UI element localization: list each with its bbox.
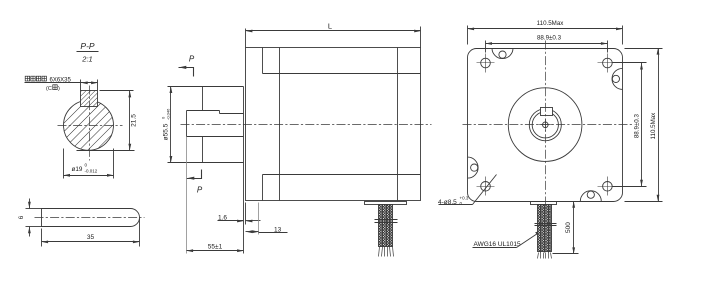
section title underline bbox=[77, 51, 99, 53]
dim 6 extension bottom bbox=[26, 226, 42, 228]
horizontal centerline bbox=[463, 124, 633, 126]
shaft section circle hatched bbox=[64, 100, 114, 150]
dim L extension left bbox=[245, 29, 247, 48]
dim 88.9 top extensions bbox=[485, 41, 487, 53]
dim 35 extension right bbox=[139, 219, 141, 247]
dim 6 extension top bbox=[26, 208, 42, 210]
shaft inner circle bbox=[532, 112, 558, 138]
svg-text:88.9±0.3: 88.9±0.3 bbox=[634, 114, 641, 139]
key width dim line bbox=[81, 82, 98, 84]
front end cap inner vertical bbox=[279, 48, 281, 201]
section mark P bottom bbox=[187, 170, 202, 179]
front wire bundle hatched bbox=[538, 205, 552, 252]
dim 35 extension left bbox=[41, 229, 43, 247]
key end step bbox=[219, 111, 221, 114]
dim 21.5 top extension bbox=[100, 90, 134, 92]
dim 6 arrow bottom bbox=[29, 227, 31, 237]
mounting hole bottom-right bbox=[603, 182, 613, 192]
boss front face bbox=[202, 87, 204, 111]
side view of motor (middle view) bbox=[161, 22, 432, 257]
section title P-P bbox=[80, 41, 95, 64]
svg-text:35: 35 bbox=[87, 234, 95, 241]
dim 88.9 top line bbox=[486, 43, 608, 45]
vertical centerline bbox=[545, 41, 547, 205]
key part centerline bbox=[35, 217, 145, 219]
svg-text:P: P bbox=[189, 55, 195, 64]
dim 110.5Max right extensions bbox=[625, 48, 663, 50]
ear bottom-left bbox=[468, 157, 479, 178]
front wire band bbox=[535, 223, 557, 225]
dim o19 extension right bbox=[113, 149, 115, 179]
flange front face line bbox=[243, 87, 245, 201]
dim 500 line bbox=[573, 202, 575, 254]
front loose wires bbox=[538, 253, 539, 259]
shaft bottom line bbox=[187, 136, 244, 138]
key width arrow left bbox=[81, 81, 88, 84]
svg-text:-0.046: -0.046 bbox=[166, 108, 171, 120]
svg-text:(C: (C bbox=[46, 86, 52, 92]
dim L extension right bbox=[420, 27, 422, 48]
svg-text:0: 0 bbox=[85, 163, 88, 168]
dim 55 extension right bbox=[243, 201, 245, 254]
dim 110.5Max top extensions bbox=[467, 26, 469, 45]
mounting hole bottom-left bbox=[481, 182, 491, 192]
bottom-left notch vertical bbox=[262, 175, 264, 201]
mounting hole top-right bbox=[603, 58, 613, 68]
dim 21.5 line bbox=[129, 91, 131, 151]
dim 88.9 right extensions bbox=[613, 62, 647, 64]
leader AWG16 line bbox=[473, 247, 517, 249]
key part outline bbox=[42, 209, 140, 227]
svg-text:ø55.5: ø55.5 bbox=[163, 123, 170, 140]
pilot boss circle bbox=[508, 88, 582, 162]
section view P-P (left detail view) bbox=[18, 41, 145, 247]
shaft centerline bbox=[181, 124, 432, 126]
svg-text:): ) bbox=[58, 86, 60, 92]
wire bundle inner lines bbox=[382, 205, 384, 247]
shaft outer circle bbox=[529, 109, 561, 141]
front wire outlet plate bbox=[531, 202, 557, 205]
top-left notch vertical bbox=[262, 48, 264, 74]
dim o19 line bbox=[64, 175, 114, 177]
svg-text:110.5Max: 110.5Max bbox=[650, 112, 657, 140]
top chamfer line bbox=[263, 73, 421, 75]
svg-text:P-P: P-P bbox=[80, 41, 95, 51]
key width extension line left bbox=[80, 80, 82, 91]
key width arrow right bbox=[91, 81, 98, 84]
dim 13 extension line bbox=[258, 203, 260, 235]
wire bundle hatched bbox=[379, 205, 393, 247]
motor body outline bbox=[246, 48, 421, 201]
section vertical centerline bbox=[89, 86, 91, 161]
flange square outline bbox=[468, 49, 623, 202]
mounting hole top-left bbox=[481, 58, 491, 68]
wire band bbox=[375, 219, 398, 221]
svg-text:ø19: ø19 bbox=[72, 166, 83, 173]
dim 35 line bbox=[42, 241, 140, 243]
dim 21.5 bottom extension bbox=[77, 150, 135, 152]
svg-text:-0.012: -0.012 bbox=[85, 169, 98, 174]
dim L line bbox=[246, 30, 421, 32]
svg-text:110.5Max: 110.5Max bbox=[537, 20, 565, 27]
loose wires bbox=[379, 247, 380, 257]
section mark P top bbox=[179, 68, 194, 77]
svg-text:P: P bbox=[197, 186, 203, 195]
shaft tip bbox=[186, 111, 188, 137]
dim o55.5 text bbox=[161, 108, 171, 140]
bottom chamfer line bbox=[263, 174, 421, 176]
dim 88.9 right line bbox=[641, 63, 643, 187]
svg-text:L: L bbox=[328, 22, 332, 31]
leader 4-o8.5 text bbox=[438, 196, 469, 207]
key width extension line right bbox=[97, 80, 99, 91]
dim o19 extension left bbox=[63, 149, 65, 179]
dim o55.5 line bbox=[170, 87, 172, 163]
keyway key section bbox=[541, 108, 553, 116]
front view of motor flange bbox=[438, 20, 663, 259]
keyway note text 6X6X35 bbox=[25, 76, 71, 92]
dim 55 extension left bbox=[186, 137, 188, 254]
dim 6 arrow top bbox=[29, 199, 31, 209]
svg-text:+0.3: +0.3 bbox=[460, 196, 469, 201]
front wire bundle inner lines bbox=[540, 205, 542, 253]
svg-text:6: 6 bbox=[18, 215, 25, 219]
svg-text:13: 13 bbox=[274, 227, 282, 234]
key cross-section hatched bbox=[81, 91, 98, 107]
wire outlet plate bbox=[365, 202, 407, 205]
ear top-right bbox=[612, 68, 623, 89]
ear bottom-right bbox=[580, 191, 601, 201]
dim 110.5Max top line bbox=[468, 28, 623, 30]
keyway note leader line bbox=[25, 82, 81, 84]
key top line bbox=[187, 110, 220, 112]
section horizontal centerline bbox=[58, 125, 123, 127]
rear end cap inner vertical bbox=[397, 48, 399, 201]
svg-text:500: 500 bbox=[565, 222, 572, 233]
svg-text:0: 0 bbox=[460, 201, 463, 206]
svg-text:21.5: 21.5 bbox=[131, 114, 138, 127]
svg-text:88.9±0.3: 88.9±0.3 bbox=[537, 35, 562, 42]
svg-text:55±1: 55±1 bbox=[208, 243, 223, 250]
dim 13 line with arrows bbox=[246, 231, 259, 233]
shaft top line bbox=[220, 113, 244, 115]
dim o19 text bbox=[72, 163, 98, 174]
dim 55 line bbox=[187, 250, 244, 252]
svg-text:2:1: 2:1 bbox=[81, 55, 92, 64]
center hole bbox=[543, 122, 549, 128]
boss top line bbox=[168, 86, 244, 88]
ear top-left bbox=[492, 48, 513, 59]
dim 110.5Max right line bbox=[658, 49, 660, 202]
dim 500 bottom extension bbox=[553, 253, 579, 255]
boss bottom line bbox=[168, 162, 244, 164]
dim 1.6 extension bbox=[245, 203, 247, 225]
leader 4-o8.5 lines bbox=[439, 204, 473, 206]
svg-text:AWG16 UL1015: AWG16 UL1015 bbox=[474, 241, 521, 248]
